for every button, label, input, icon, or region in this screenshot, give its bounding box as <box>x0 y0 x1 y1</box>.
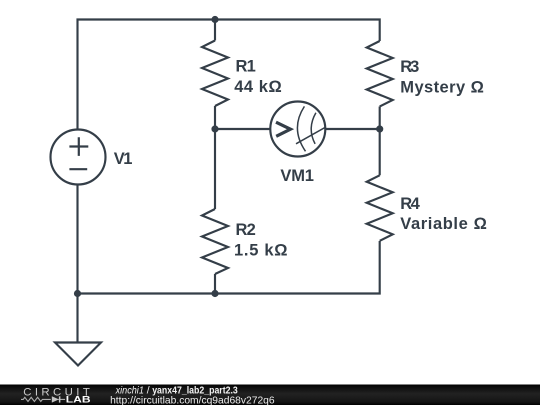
wire VM1 right terminal to right node <box>325 128 379 130</box>
svg-text:R3: R3 <box>400 58 419 76</box>
node junction mid right <box>376 125 383 132</box>
wire mid node to VM1 left terminal <box>215 128 270 130</box>
logo diode <box>52 396 61 402</box>
svg-text:R2: R2 <box>236 221 256 239</box>
logo resistor-diode line <box>21 397 65 401</box>
svg-text:44 kΩ: 44 kΩ <box>234 78 282 96</box>
VM1 meter arc right <box>311 113 316 144</box>
resistor R4 <box>367 175 393 241</box>
ground symbol <box>55 343 101 366</box>
svg-text:VM1: VM1 <box>280 167 314 185</box>
V1 plus sign <box>69 137 88 156</box>
svg-text:Mystery Ω: Mystery Ω <box>400 78 484 96</box>
wire R2 to bottom rail <box>214 274 216 294</box>
resistor R2 <box>202 209 228 274</box>
svg-text:R4: R4 <box>400 195 420 213</box>
svg-text:1.5 kΩ: 1.5 kΩ <box>234 241 288 259</box>
svg-text:Variable Ω: Variable Ω <box>400 215 487 233</box>
voltage source V1 circle <box>51 130 106 185</box>
svg-text:R1: R1 <box>236 57 256 75</box>
node junction bottom middle <box>211 290 218 297</box>
svg-text:V1: V1 <box>114 150 133 168</box>
node junction bottom left <box>74 290 81 297</box>
node junction mid middle <box>211 125 218 132</box>
svg-text:http://circuitlab.com/cq9ad68v: http://circuitlab.com/cq9ad68v272q6 <box>110 395 275 405</box>
resistor R1 <box>202 41 228 107</box>
wire bottom horizontal <box>78 241 380 294</box>
node junction top middle <box>211 16 218 23</box>
wire top horizontal <box>78 20 380 130</box>
wire middle column top (top rail to R1) <box>214 20 216 41</box>
VM1 meter arc left <box>297 106 305 151</box>
wire right node to R4 top <box>379 129 381 175</box>
wire ground stem <box>76 294 78 343</box>
svg-text:LAB: LAB <box>66 395 91 405</box>
wire left lower (V1 bottom to bottom rail) <box>76 185 78 294</box>
voltmeter VM1 circle <box>270 102 325 157</box>
resistor R3 <box>367 41 393 107</box>
footer bar background <box>0 385 540 405</box>
V1 minus sign <box>69 168 87 170</box>
wire R3 bottom to right node <box>379 107 381 130</box>
wire middle column mid (R1 to mid node) <box>214 106 216 129</box>
wire mid node to R2 <box>214 129 216 209</box>
VM1 needle <box>296 128 325 144</box>
VM1 chevron <box>276 122 291 136</box>
